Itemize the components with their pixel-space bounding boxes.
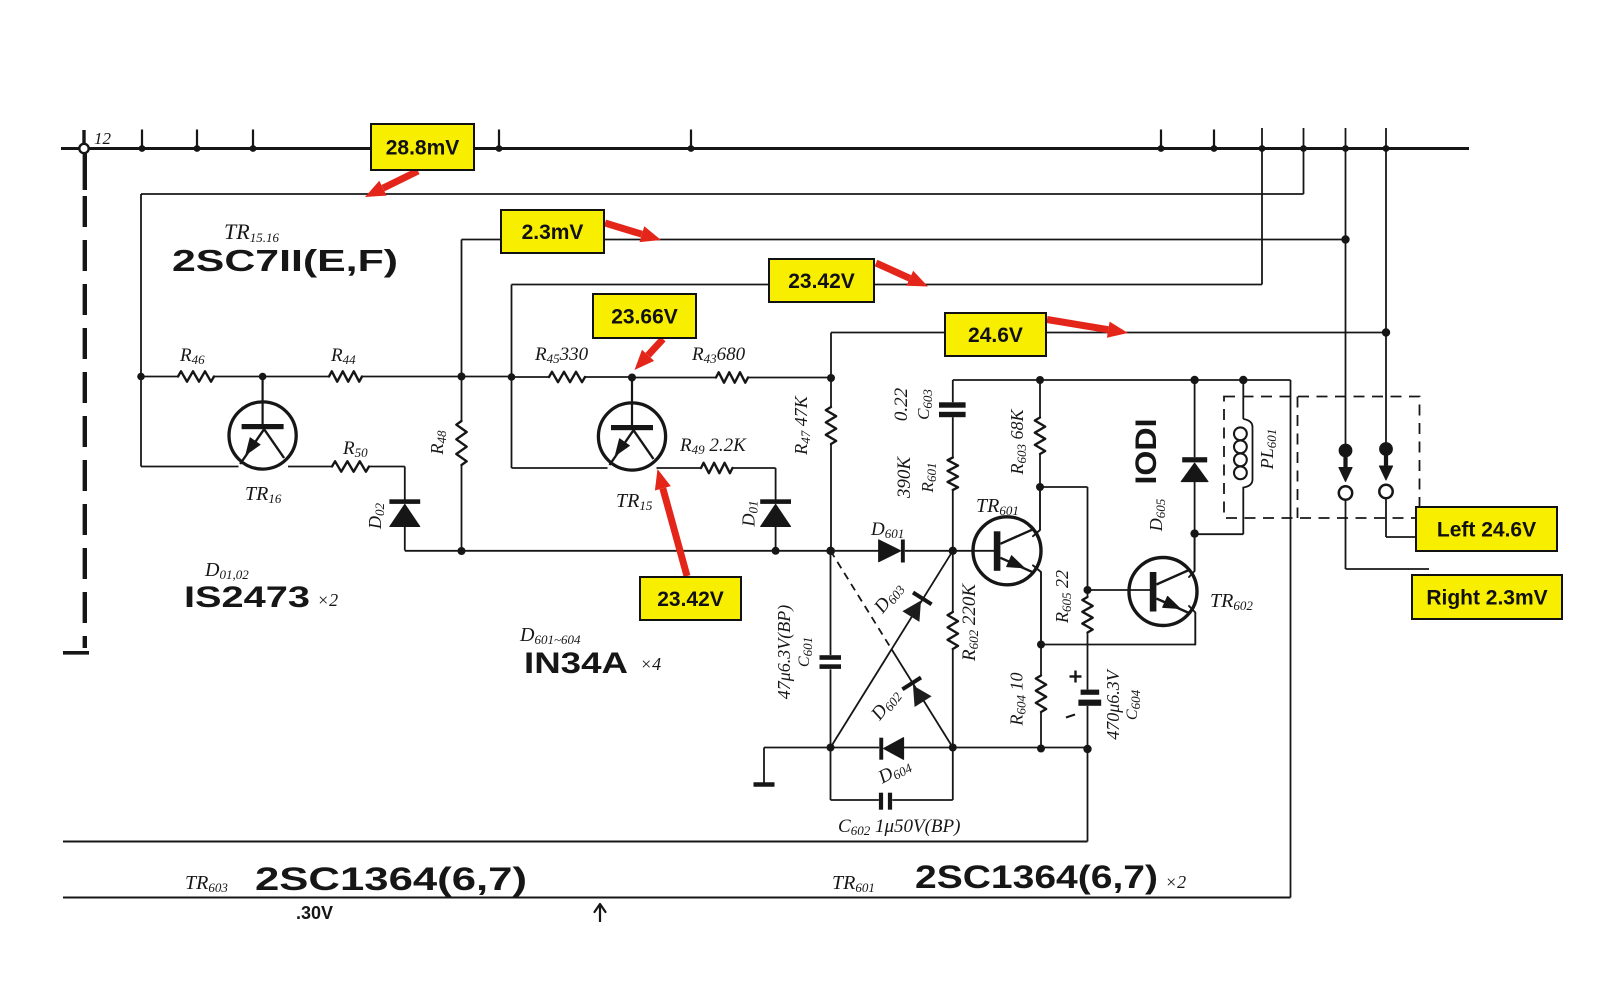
svg-text:47μ6.3V(BP): 47μ6.3V(BP)	[774, 605, 795, 700]
svg-text:×2: ×2	[317, 590, 338, 610]
svg-text:R43680: R43680	[691, 344, 746, 366]
svg-text:IN34A: IN34A	[524, 647, 628, 680]
svg-text:.30V: .30V	[296, 903, 333, 923]
svg-text:23.66V: 23.66V	[611, 305, 678, 328]
svg-text:24.6V: 24.6V	[968, 324, 1023, 347]
svg-text:23.42V: 23.42V	[788, 270, 855, 293]
svg-text:C601: C601	[796, 637, 815, 667]
svg-text:12: 12	[94, 129, 112, 148]
svg-text:IODI: IODI	[1130, 419, 1163, 485]
svg-text:28.8mV: 28.8mV	[386, 136, 460, 159]
svg-text:23.42V: 23.42V	[657, 588, 724, 611]
svg-text:R602 220K: R602 220K	[959, 583, 981, 662]
svg-text:390K: 390K	[894, 456, 915, 500]
svg-text:R603 68K: R603 68K	[1007, 409, 1029, 476]
svg-text:0.22: 0.22	[891, 387, 912, 421]
svg-text:×2: ×2	[1165, 872, 1186, 892]
svg-text:470μ6.3V: 470μ6.3V	[1103, 668, 1123, 740]
svg-text:2SC1364(6,7): 2SC1364(6,7)	[915, 859, 1158, 895]
svg-text:2.3mV: 2.3mV	[522, 221, 584, 244]
svg-text:Left 24.6V: Left 24.6V	[1437, 518, 1536, 541]
svg-text:×4: ×4	[640, 654, 661, 674]
svg-text:Right 2.3mV: Right 2.3mV	[1426, 586, 1547, 609]
svg-text:2SC1364(6,7): 2SC1364(6,7)	[255, 861, 527, 897]
svg-text:C604: C604	[1124, 689, 1143, 720]
svg-text:R49 2.2K: R49 2.2K	[679, 435, 747, 457]
svg-text:2SC7II(E,F): 2SC7II(E,F)	[172, 243, 398, 278]
svg-text:IS2473: IS2473	[184, 581, 310, 614]
svg-text:R47 47K: R47 47K	[791, 395, 813, 456]
svg-text:R45330: R45330	[534, 344, 589, 366]
